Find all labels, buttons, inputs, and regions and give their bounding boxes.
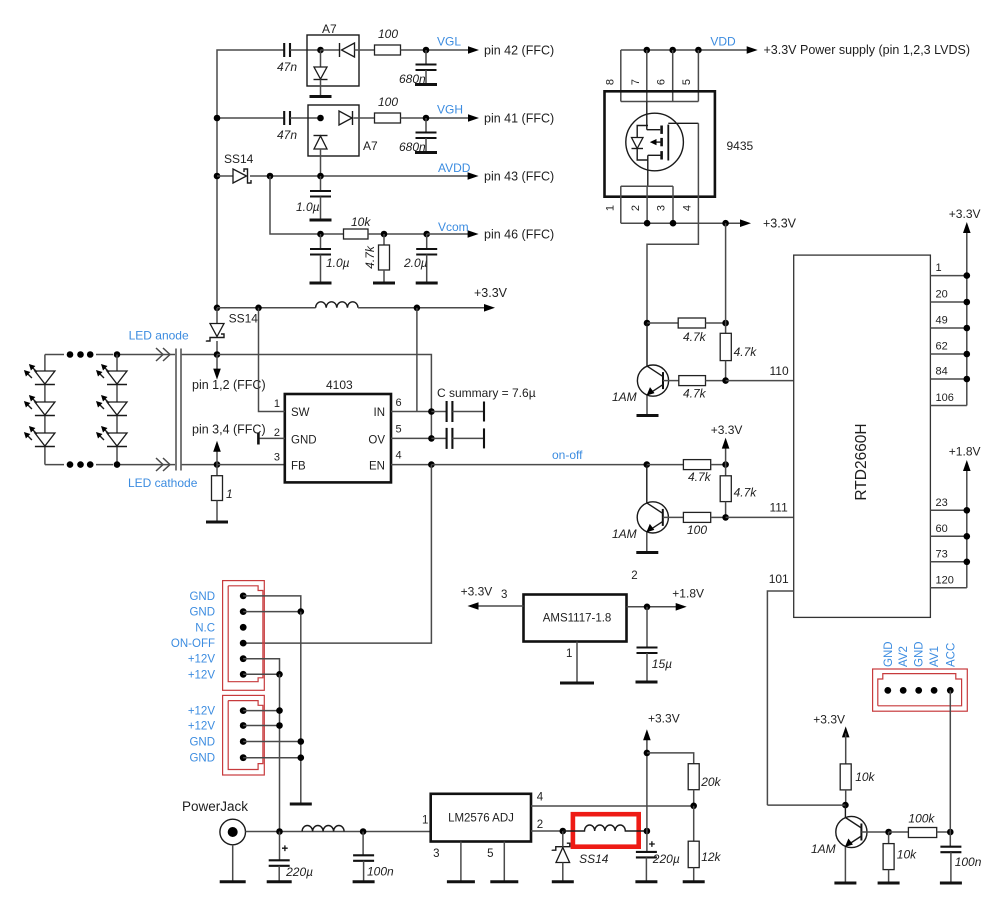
- ground (A7 VGL): [310, 95, 332, 98]
- arrow +1.8V AMS: [676, 603, 687, 611]
- svg-text:106: 106: [936, 392, 954, 404]
- svg-text:+1.8V: +1.8V: [672, 587, 704, 601]
- ground (1.0u AVDD): [310, 219, 332, 222]
- svg-text:+3.3V: +3.3V: [813, 713, 845, 727]
- node GND bus top: [298, 608, 305, 615]
- capacitor 2.0u (Vcom): [416, 234, 437, 283]
- ground 12k: [683, 880, 705, 883]
- wire jack to ground: [232, 845, 234, 882]
- svg-text:110: 110: [770, 364, 789, 378]
- svg-text:C summary = 7.6µ: C summary = 7.6µ: [437, 386, 536, 400]
- ground GND bus: [290, 803, 312, 806]
- svg-text:GND: GND: [189, 591, 215, 603]
- svg-text:84: 84: [936, 366, 948, 378]
- wire +12V bus: [279, 674, 281, 831]
- svg-text:1AM: 1AM: [811, 842, 836, 856]
- svg-text:LED cathode: LED cathode: [128, 476, 198, 490]
- diode A7c (VGH rectifier, cathode right): [339, 111, 375, 125]
- ground jack: [220, 880, 246, 883]
- wire +1.8V bus RTD: [966, 467, 968, 588]
- svg-text:SS14: SS14: [579, 852, 609, 866]
- inductor buck output: [563, 825, 647, 831]
- label 2.0u: [403, 256, 428, 270]
- net label VDD: [710, 35, 736, 49]
- label +3.3V Q3: [813, 713, 845, 727]
- node FB divider: [690, 803, 697, 810]
- label RTD2660H: [853, 423, 870, 500]
- labels J1 GND GND N.C ON-OFF +12V +12V: [171, 591, 215, 681]
- label 1.0u Vcom: [326, 256, 350, 270]
- label 110: [770, 364, 789, 378]
- svg-text:N.C: N.C: [195, 622, 215, 634]
- label pin 46 (FFC): [484, 228, 554, 242]
- wire Vcom output: [427, 233, 469, 235]
- label pin 42 (FFC): [484, 44, 554, 58]
- svg-text:4.7k: 4.7k: [363, 245, 377, 269]
- inductor L1 (boost): [316, 302, 358, 308]
- capacitor 100n input: [353, 832, 394, 882]
- node 9435 pin5 top: [695, 47, 702, 54]
- pin number 3 LM2576: [433, 848, 439, 860]
- pin number 4 LM2576: [537, 792, 544, 804]
- label AMS1117-1.8: [543, 613, 612, 625]
- wire ACC to 100k node: [949, 690, 951, 832]
- wire J1 GND pin1: [243, 596, 301, 612]
- svg-text:+3.3V: +3.3V: [763, 217, 797, 231]
- pin number 2 LM2576: [537, 819, 543, 831]
- pin numbers 4103: [274, 397, 402, 464]
- ground (680n VGH): [415, 151, 437, 154]
- wire LED anode row: [45, 354, 217, 356]
- node rail AVDD: [214, 173, 221, 180]
- node AVDD-Vcom branch: [267, 173, 274, 180]
- svg-text:5: 5: [396, 424, 402, 436]
- svg-text:4: 4: [396, 450, 402, 462]
- svg-text:10k: 10k: [897, 848, 917, 862]
- node divider top: [644, 750, 651, 757]
- resistor 4.7k (Q2 vertical): [720, 465, 757, 518]
- label 1.0u AVDD: [296, 200, 320, 214]
- ground LM2576 pin5: [490, 880, 518, 883]
- node 100n input: [360, 828, 367, 835]
- svg-text:10k: 10k: [351, 215, 371, 229]
- svg-text:3: 3: [501, 589, 507, 601]
- label pin 3,4 (FFC): [192, 423, 266, 437]
- svg-text:+3.3V: +3.3V: [711, 423, 743, 437]
- diode pack A7 box (VGH): [308, 105, 359, 156]
- ground SS14 buck: [552, 880, 574, 883]
- svg-text:EN: EN: [369, 461, 385, 473]
- svg-text:AV1: AV1: [929, 646, 941, 667]
- label pin 1,2 (FFC): [192, 378, 266, 392]
- resistor 4.7k (Q1 base): [663, 376, 726, 401]
- svg-text:GND: GND: [291, 435, 317, 447]
- svg-text:2: 2: [274, 427, 280, 439]
- svg-text:OV: OV: [368, 435, 385, 447]
- svg-text:1: 1: [274, 398, 280, 410]
- diode SS14 (boost output): [207, 308, 225, 355]
- capacitor 47n (VGH pump): [277, 111, 297, 142]
- connector J4 outer outline: [873, 669, 968, 711]
- IC RTD2660H box: [794, 255, 931, 617]
- resistor 100 (VGL): [375, 27, 401, 55]
- svg-text:2: 2: [537, 819, 543, 831]
- LED D6: [96, 426, 127, 447]
- node Vcom cap2: [423, 231, 430, 238]
- node J2 GND a: [298, 738, 305, 745]
- FFC chevron (anode): [156, 348, 170, 361]
- svg-text:FB: FB: [291, 461, 306, 473]
- node 9435 pin6 top: [669, 47, 676, 54]
- svg-text:+3.3V: +3.3V: [949, 207, 981, 221]
- arrow +3.3V RTD bus: [963, 222, 971, 233]
- capacitor 220u input: [269, 832, 313, 882]
- svg-text:pin 1,2 (FFC): pin 1,2 (FFC): [192, 378, 266, 392]
- svg-text:4.7k: 4.7k: [734, 345, 758, 359]
- capacitor 680n (VGL): [416, 50, 437, 84]
- wire RTD right pins group A: [930, 276, 966, 406]
- svg-text:4: 4: [537, 792, 544, 804]
- wire SW rail segment: [217, 307, 316, 309]
- pin number 1 LM2576: [422, 815, 428, 827]
- svg-text:5: 5: [487, 848, 493, 860]
- label 1AM Q1: [612, 390, 637, 404]
- wire IN pin 6: [391, 411, 431, 413]
- diode A7a (VGL rectifier, cathode left): [321, 43, 375, 57]
- resistor 4.7k (Q1 collector-rail): [647, 318, 726, 344]
- nodes RTD bus A: [964, 272, 971, 382]
- svg-text:20: 20: [936, 289, 948, 301]
- svg-text:PowerJack: PowerJack: [182, 799, 248, 814]
- svg-text:1: 1: [226, 487, 233, 501]
- LED D3: [24, 426, 55, 447]
- label +1.8V RTD: [949, 445, 981, 459]
- dots continuation (anode): [67, 351, 94, 358]
- inductor input filter: [302, 826, 344, 832]
- capacitor 15u: [637, 607, 673, 682]
- node SS14 buck: [560, 828, 567, 835]
- ground (2.0u Vcom): [416, 282, 438, 285]
- svg-text:100n: 100n: [955, 855, 982, 869]
- label +3.3V power supply LVDS: [764, 43, 970, 57]
- node VGH: [423, 115, 430, 122]
- label SS14 (AVDD): [224, 152, 254, 166]
- node AVDD cap branch: [317, 173, 324, 180]
- svg-text:60: 60: [936, 523, 948, 535]
- label +3.3V AMS: [461, 585, 493, 599]
- node pin 111: [722, 514, 729, 521]
- svg-text:3: 3: [433, 848, 439, 860]
- label pin 43 (FFC): [484, 170, 554, 184]
- svg-text:10k: 10k: [855, 770, 875, 784]
- svg-text:RTD2660H: RTD2660H: [853, 423, 870, 500]
- diode pack A7 box (VGL): [307, 35, 359, 86]
- net label AVDD: [438, 161, 471, 175]
- wire to RTD pin 110: [726, 380, 794, 382]
- resistor 10k (Q3 base pulldown): [883, 832, 917, 883]
- ground 220u input: [267, 880, 292, 883]
- ground (680n VGL): [415, 83, 437, 86]
- svg-text:120: 120: [936, 574, 954, 586]
- svg-text:+1.8V: +1.8V: [949, 445, 981, 459]
- net label LED cathode: [128, 476, 198, 490]
- svg-text:GND: GND: [189, 753, 215, 765]
- label +3.3V RTD: [949, 207, 981, 221]
- wire J2 +12V pin1: [243, 710, 279, 712]
- label SS14 (boost): [229, 312, 259, 326]
- ground (1.0u Vcom): [310, 282, 332, 285]
- svg-text:VGL: VGL: [437, 35, 461, 49]
- svg-text:220µ: 220µ: [285, 865, 313, 879]
- capacitor summary C1: [431, 401, 484, 422]
- ground Q2: [636, 551, 658, 554]
- svg-text:15µ: 15µ: [652, 657, 672, 671]
- connector J2 outer outline: [223, 695, 265, 775]
- wire to RTD pin 111: [726, 516, 794, 518]
- node cathode col2: [114, 461, 121, 468]
- svg-text:100n: 100n: [367, 865, 394, 879]
- svg-text:A7: A7: [322, 22, 337, 36]
- node Q2 collector: [644, 461, 651, 468]
- ground 15u: [636, 681, 658, 684]
- svg-text:1AM: 1AM: [612, 390, 637, 404]
- arrow Vcom to pin 46: [468, 230, 479, 238]
- wire EN to on-off: [431, 464, 646, 466]
- label 9435: [727, 139, 754, 153]
- wire pin 2 +1.8V output: [627, 606, 678, 608]
- svg-text:ACC: ACC: [945, 643, 957, 667]
- svg-text:AV2: AV2: [898, 646, 910, 667]
- svg-text:GND: GND: [189, 737, 215, 749]
- wire AVDD: [250, 175, 469, 177]
- node J2 +12V b: [276, 722, 283, 729]
- node rail top: [214, 305, 221, 312]
- svg-text:100: 100: [378, 27, 398, 41]
- resistor 100 (Q2 base): [663, 512, 726, 537]
- label A7 (VGH): [363, 139, 378, 153]
- arrow +3.3V buck: [643, 729, 651, 740]
- wire VGH output: [401, 117, 470, 119]
- wire Q1 emitter: [646, 396, 648, 416]
- wire anode to C summary corner: [217, 355, 431, 439]
- wire Q2 emitter: [646, 533, 648, 553]
- arrow AVDD to pin 43: [468, 172, 479, 180]
- svg-text:SS14: SS14: [224, 152, 254, 166]
- connector J1 outer outline: [223, 581, 265, 691]
- net label on-off: [552, 448, 583, 462]
- labels J2 +12V +12V GND GND: [188, 706, 216, 765]
- node 9435 pin7 top: [644, 47, 651, 54]
- resistor 100 (VGH): [375, 95, 401, 123]
- wire pin 2 output: [531, 830, 563, 832]
- diode A7b (VGL clamp to ground): [314, 50, 328, 97]
- node Q1 rail top: [722, 320, 729, 327]
- LED string column 2: [116, 355, 118, 465]
- svg-text:12k: 12k: [701, 850, 721, 864]
- wire 9435 bottom pins: [621, 186, 673, 223]
- svg-text:47n: 47n: [277, 128, 297, 142]
- connector J1 inner outline: [228, 586, 263, 682]
- svg-text:+3.3V: +3.3V: [474, 286, 508, 300]
- ground Q1: [637, 414, 659, 417]
- svg-text:1.0µ: 1.0µ: [326, 256, 350, 270]
- arrow +3.3V 9435: [740, 219, 751, 227]
- label 1AM Q2: [612, 527, 637, 541]
- svg-text:100: 100: [378, 95, 398, 109]
- net label LED anode: [129, 329, 189, 343]
- svg-text:+12V: +12V: [188, 669, 216, 681]
- wire J1 GND pin2: [243, 611, 301, 613]
- arrow +3.3V AMS input: [468, 602, 479, 610]
- labels RTD pins group B: [936, 497, 954, 587]
- connector J2 pins: [240, 707, 247, 761]
- label 680n (VGH): [399, 140, 426, 154]
- labels RTD pins group A: [936, 262, 954, 404]
- wire J2 GND pin3: [243, 741, 301, 743]
- wire Q3 emitter: [844, 847, 846, 883]
- resistor 4.7k (Vcom pulldown): [363, 234, 390, 283]
- svg-text:SW: SW: [291, 407, 310, 419]
- label LM2576 ADJ: [448, 813, 514, 825]
- label PowerJack: [182, 799, 248, 814]
- arrow VGH to pin 41: [468, 114, 479, 122]
- svg-text:8: 8: [605, 79, 617, 85]
- ground 100n ACC: [940, 882, 962, 885]
- svg-text:pin 42 (FFC): pin 42 (FFC): [484, 44, 554, 58]
- wire GND pin 2 with ground flag: [258, 433, 284, 445]
- svg-text:101: 101: [769, 572, 789, 586]
- node Q2 rail top: [722, 461, 729, 468]
- resistor 4.7k (Q1 vertical): [720, 323, 757, 381]
- pin number 3 AMS: [501, 589, 507, 601]
- resistor 10k (Q3 collector): [840, 764, 875, 805]
- node pin 110: [722, 377, 729, 384]
- ground 10k Q3: [878, 882, 900, 885]
- arrow pin 3,4 (FFC): [213, 441, 221, 465]
- wire VGL output: [401, 49, 470, 51]
- label 101: [769, 572, 789, 586]
- resistor 12k: [688, 806, 721, 882]
- ground (4.7k Vcom): [373, 282, 395, 285]
- label +3.3V Q2: [711, 423, 743, 437]
- transistor Q3 1AM: [836, 805, 867, 848]
- svg-text:4.7k: 4.7k: [688, 470, 712, 484]
- svg-text:4.7k: 4.7k: [683, 387, 707, 401]
- label A7: [322, 22, 337, 36]
- labels J4 GND AV2 GND AV1 ACC: [883, 641, 958, 667]
- pin number 5 LM2576: [487, 848, 493, 860]
- wire GND bus: [300, 612, 302, 804]
- node Q3 collector: [842, 802, 849, 809]
- svg-text:A7: A7: [363, 139, 378, 153]
- svg-text:2.0µ: 2.0µ: [403, 256, 428, 270]
- svg-text:47n: 47n: [277, 60, 297, 74]
- wire OV pin 5: [391, 437, 431, 439]
- svg-text:pin 3,4 (FFC): pin 3,4 (FFC): [192, 423, 266, 437]
- svg-text:680n: 680n: [399, 72, 426, 86]
- svg-text:VDD: VDD: [710, 35, 736, 49]
- node +12V input: [276, 828, 283, 835]
- node IN branch: [414, 305, 421, 312]
- capacitor 680n (VGH): [416, 118, 437, 152]
- label SS14 buck: [579, 852, 609, 866]
- svg-text:pin 41 (FFC): pin 41 (FFC): [484, 112, 554, 126]
- connector J2 inner outline: [228, 701, 263, 770]
- node C summary bottom: [428, 435, 435, 442]
- IC AMS1117-1.8 box: [524, 595, 627, 642]
- wire +3.3V to 10k: [845, 733, 847, 764]
- node Vcom cap1: [317, 231, 324, 238]
- wire LED cathode row: [45, 464, 217, 466]
- svg-text:+3.3V: +3.3V: [461, 585, 493, 599]
- svg-text:4103: 4103: [326, 378, 353, 392]
- resistor 20k: [688, 764, 721, 806]
- svg-text:4.7k: 4.7k: [734, 486, 758, 500]
- wire SW pin 1 to SW node: [259, 308, 285, 412]
- LED D5: [96, 395, 127, 416]
- label +3.3V buck: [648, 712, 680, 726]
- arrow VDD supply: [747, 46, 758, 54]
- capacitor 100n ACC: [940, 832, 981, 883]
- svg-text:pin 46 (FFC): pin 46 (FFC): [484, 228, 554, 242]
- svg-text:1: 1: [566, 648, 572, 660]
- svg-text:111: 111: [770, 501, 789, 515]
- wire 47n to A7 box: [290, 49, 321, 51]
- svg-text:+3.3V: +3.3V: [648, 712, 680, 726]
- node J2 GND b: [298, 754, 305, 761]
- ground 220u output: [635, 880, 657, 883]
- node cathode right: [214, 461, 221, 468]
- transistor Q1 1AM: [637, 323, 668, 396]
- node junction VGH pump: [317, 115, 324, 122]
- net label VGL: [437, 35, 461, 49]
- svg-text:AVDD: AVDD: [438, 161, 471, 175]
- node anode col2: [114, 351, 121, 358]
- svg-text:LED anode: LED anode: [129, 329, 189, 343]
- arrow +3.3V (boost input): [484, 304, 495, 312]
- svg-text:1.0µ: 1.0µ: [296, 200, 320, 214]
- pin names 4103: [291, 407, 385, 473]
- label pin 41 (FFC): [484, 112, 554, 126]
- wire power input line: [246, 831, 431, 833]
- wire J2 GND pin4: [243, 757, 301, 759]
- svg-text:49: 49: [936, 315, 948, 327]
- ground 100n input: [353, 880, 375, 883]
- svg-text:1AM: 1AM: [612, 527, 637, 541]
- wire EN pin 4: [391, 464, 431, 466]
- connector J1 pins: [240, 593, 247, 678]
- node Q3 base junction: [885, 829, 892, 836]
- wire J1 +12V pin5: [243, 659, 279, 675]
- node C summary top: [428, 408, 435, 415]
- ground (LED sense): [206, 521, 228, 524]
- capacitor summary C2: [431, 428, 484, 449]
- node rail VGH: [214, 115, 221, 122]
- svg-text:2: 2: [630, 205, 642, 211]
- pin numbers 1 2 3 4: [605, 205, 694, 211]
- node EN junction: [428, 461, 435, 468]
- wire 9435 top pins: [621, 50, 699, 102]
- svg-text:5: 5: [681, 79, 693, 85]
- wire Q3 base: [861, 831, 888, 833]
- wire 101 to Q3 collector: [767, 804, 845, 806]
- diode SS14 (buck freewheel): [552, 831, 570, 882]
- svg-text:VGH: VGH: [437, 103, 463, 117]
- svg-text:3: 3: [274, 452, 280, 464]
- wire inductor to +3.3V arrow: [358, 307, 486, 309]
- svg-text:SS14: SS14: [229, 312, 259, 326]
- capacitor 47n (VGL pump): [277, 43, 297, 74]
